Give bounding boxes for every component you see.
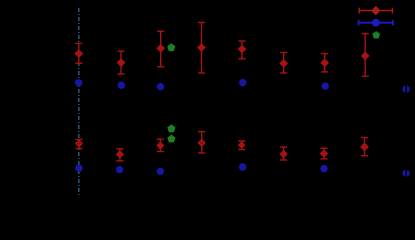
vertical dash-dot reference line (78, 8, 80, 195)
errorbar R4 top (198, 23, 205, 74)
circle B6 top (on right spine) (402, 85, 409, 92)
diamond R2 bottom (116, 150, 124, 158)
errorbar R1 bottom (75, 140, 82, 149)
errorbar R6 bottom (280, 147, 287, 160)
circle B5 top (322, 82, 329, 89)
errorbar R7 top (321, 54, 328, 72)
diamond R3 top (156, 44, 165, 53)
errorbar R2 top (117, 51, 124, 74)
errorbar R3 bottom (157, 139, 164, 151)
circle B5 bottom (320, 165, 327, 172)
diamond R3 bottom (156, 142, 164, 150)
circle B1 bottom (75, 165, 82, 172)
errorbar R5 top (238, 41, 245, 59)
circle B4 bottom (239, 163, 246, 170)
pentagon G1 bottom (167, 124, 175, 132)
pentagon G2 bottom (167, 135, 175, 143)
diamond R5 bottom (238, 141, 246, 149)
diamond R8 top (361, 52, 370, 61)
circle B3 bottom (157, 168, 164, 175)
diamond R7 bottom (320, 149, 328, 157)
diamond R8 bottom (360, 143, 369, 152)
legend green pentagon (372, 31, 380, 38)
diamond R2 top (117, 58, 126, 67)
diamond R1 top (74, 49, 83, 58)
errorbar R2 bottom (116, 149, 123, 161)
pentagon G1 top (167, 43, 175, 51)
errorbar R6 top (280, 53, 287, 74)
diamond R4 top (197, 43, 206, 52)
errorbar R7 bottom (320, 148, 327, 159)
hollow diamond R1 bottom (75, 139, 83, 147)
errorbar R8 bottom (361, 138, 368, 156)
legend blue circle (372, 19, 380, 27)
hollow diamond R4 bottom (198, 139, 206, 147)
errorbar R8 top (362, 34, 369, 77)
diamond R7 top (320, 58, 329, 67)
legend blue errorbar entry (359, 20, 393, 26)
legend red diamond (371, 6, 380, 15)
diamond R5 top (238, 45, 247, 54)
errorbar R1 top (75, 43, 82, 63)
errorbar R5 bottom (238, 141, 245, 150)
legend red errorbar entry (359, 8, 392, 14)
circle B6 bottom (on right spine) (402, 170, 409, 177)
diamond R6 top (279, 59, 288, 68)
circle B2 bottom (116, 166, 123, 173)
circle B1 top (75, 79, 82, 86)
circle B3 top (157, 83, 164, 90)
circle B4 top (239, 79, 246, 86)
errorbar R4 bottom (198, 132, 205, 153)
errorbar R3 top (157, 31, 164, 67)
diamond R6 bottom (279, 150, 287, 158)
circle B2 top (118, 82, 125, 89)
